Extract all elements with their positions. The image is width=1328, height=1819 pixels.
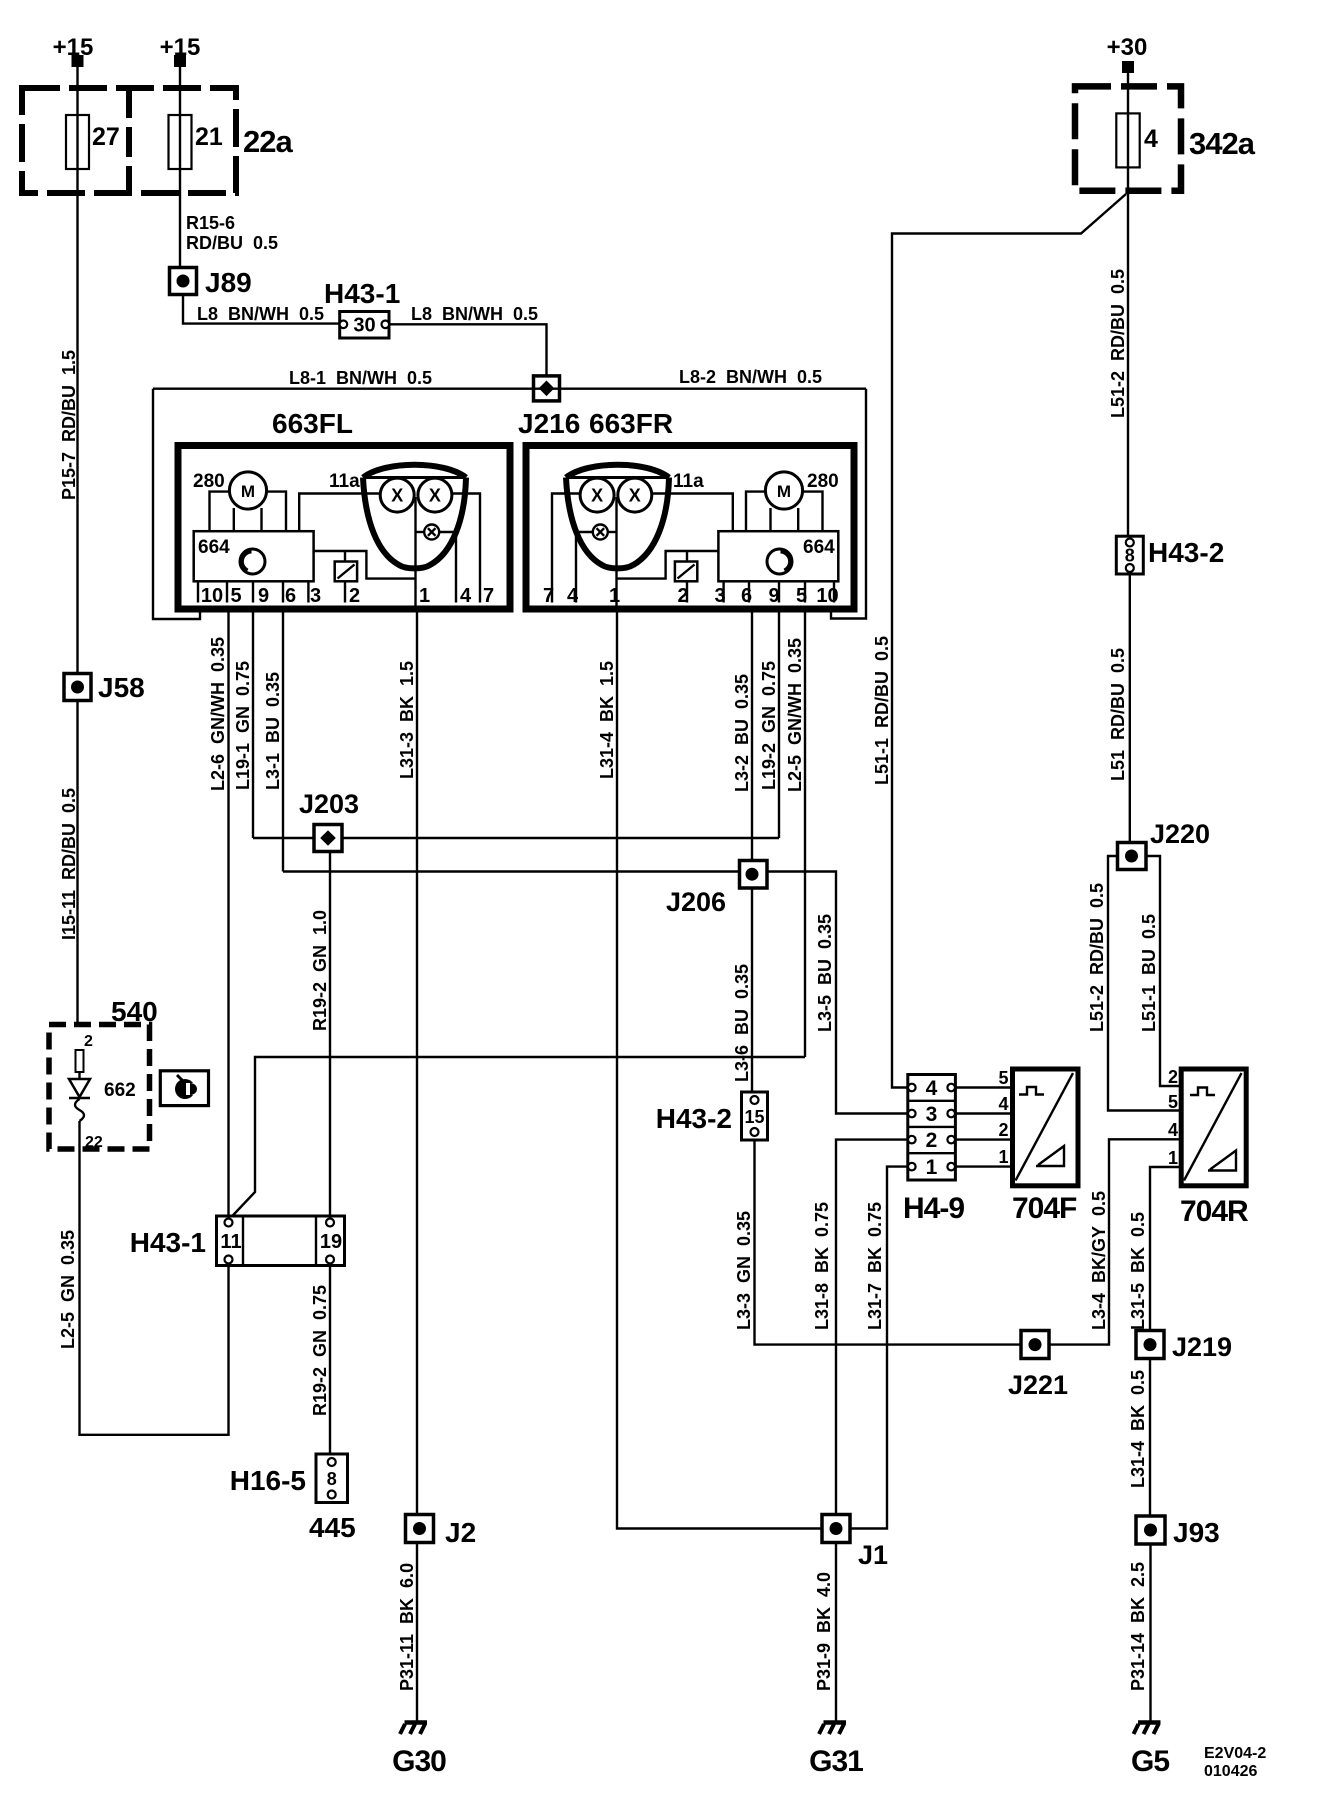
svg-text:X: X xyxy=(429,486,441,506)
svg-text:11a: 11a xyxy=(673,471,704,492)
leveling valve box (FL) xyxy=(344,551,346,562)
wire FL pin6 L3-1 down xyxy=(282,609,284,872)
wire 540 down and across to H43-1 pin 11 xyxy=(80,1121,229,1435)
junction J221 xyxy=(1021,1331,1049,1359)
svg-text:J58: J58 xyxy=(98,672,145,703)
svg-text:G30: G30 xyxy=(392,1745,446,1778)
svg-text:2: 2 xyxy=(677,585,688,607)
wire J89 to H43-1 pin 30 xyxy=(183,295,340,324)
wire FR pin9 L19-2 down xyxy=(778,609,780,838)
svg-text:P31-14 BK 2.5: P31-14 BK 2.5 xyxy=(1128,1562,1148,1691)
svg-text:J221: J221 xyxy=(1008,1370,1068,1400)
wire J220 right branch L51-1 to 704R pin 2 xyxy=(1146,856,1181,1086)
wire J93 down to G5 xyxy=(1149,1544,1151,1721)
wire J2 down to G30 xyxy=(416,1543,418,1722)
svg-text:I15-11 RD/BU 0.5: I15-11 RD/BU 0.5 xyxy=(59,788,79,940)
svg-text:L3-1 BU 0.35: L3-1 BU 0.35 xyxy=(263,672,283,790)
svg-text:5: 5 xyxy=(796,585,807,607)
switch icon box xyxy=(160,1071,208,1106)
wire from +15 to fuse 21 xyxy=(179,67,181,115)
svg-text:L3-3 GN 0.35: L3-3 GN 0.35 xyxy=(734,1211,754,1330)
pin ticks (FL) xyxy=(197,581,199,602)
svg-text:2: 2 xyxy=(998,1120,1008,1140)
svg-text:5: 5 xyxy=(1168,1092,1178,1112)
reflector tulip (FL) xyxy=(363,465,466,478)
bulb X left (FL) xyxy=(380,478,414,512)
svg-text:664: 664 xyxy=(803,537,835,558)
junction J89 xyxy=(170,268,197,295)
svg-text:J220: J220 xyxy=(1150,819,1210,849)
svg-text:4: 4 xyxy=(1168,1120,1178,1140)
svg-text:2: 2 xyxy=(926,1129,938,1152)
svg-text:280: 280 xyxy=(807,471,839,492)
wire J1 down to G31 xyxy=(835,1543,837,1722)
svg-text:H43-2: H43-2 xyxy=(656,1103,732,1134)
wire 704R pin 1 down through J219 to J93 xyxy=(1150,1167,1181,1516)
unit 540 dashed box xyxy=(49,1025,150,1150)
svg-text:10: 10 xyxy=(816,585,838,607)
svg-text:H16-5: H16-5 xyxy=(230,1465,306,1496)
svg-text:1: 1 xyxy=(419,585,430,607)
svg-text:8: 8 xyxy=(1125,546,1135,566)
motor wires (FR) xyxy=(746,492,764,532)
svg-text:4: 4 xyxy=(460,585,472,607)
svg-text:L51-2 RD/BU 0.5: L51-2 RD/BU 0.5 xyxy=(1108,269,1128,418)
ECU 704R xyxy=(1181,1069,1246,1186)
wire FR pin5 across to H43-1 pin 11 xyxy=(229,1057,806,1220)
svg-text:15: 15 xyxy=(744,1107,764,1127)
resistor in 540 xyxy=(76,1050,84,1072)
connector H43-1 pin 30 xyxy=(340,312,389,339)
svg-text:L3-6 BU 0.35: L3-6 BU 0.35 xyxy=(732,964,752,1082)
svg-text:280: 280 xyxy=(193,471,225,492)
bulb X right (FR) xyxy=(618,478,652,512)
junction J2 xyxy=(406,1515,434,1543)
internal wires (FL) xyxy=(299,494,381,532)
side bulb (FR) xyxy=(593,525,608,540)
headlamp unit 663FL xyxy=(178,446,510,610)
SECTION: right side xyxy=(812,34,1256,1529)
svg-text:2: 2 xyxy=(1168,1067,1178,1087)
svg-text:6: 6 xyxy=(741,585,752,607)
svg-text:6: 6 xyxy=(285,585,296,607)
svg-text:R15-6: R15-6 xyxy=(186,213,235,233)
wire H43-1 pin 19 down to H16-5 xyxy=(329,1264,331,1454)
wires H4-9 to 704F xyxy=(955,1086,1012,1088)
svg-text:4: 4 xyxy=(998,1094,1008,1114)
svg-text:H43-1: H43-1 xyxy=(130,1227,206,1258)
svg-text:L8 BN/WH 0.5: L8 BN/WH 0.5 xyxy=(411,304,538,324)
svg-text:R19-2 GN 0.75: R19-2 GN 0.75 xyxy=(310,1285,330,1416)
svg-text:22: 22 xyxy=(85,1134,103,1151)
reflector tulip (FR) xyxy=(566,465,669,478)
svg-text:M: M xyxy=(777,482,791,501)
wire H4-9 pin1 down to J1 xyxy=(850,1167,908,1529)
junction J1 xyxy=(822,1515,850,1543)
svg-text:4: 4 xyxy=(1144,125,1158,153)
svg-text:663FL: 663FL xyxy=(272,408,353,439)
svg-text:2: 2 xyxy=(349,585,360,607)
svg-text:J216: J216 xyxy=(518,408,580,439)
svg-text:704R: 704R xyxy=(1180,1195,1249,1228)
wire FL pin9 L19-1 down xyxy=(252,609,254,838)
wire from +15 to fuse 27 xyxy=(76,67,78,115)
svg-text:E2V04-2: E2V04-2 xyxy=(1204,1745,1266,1762)
svg-text:5: 5 xyxy=(998,1068,1008,1088)
svg-text:4: 4 xyxy=(567,585,579,607)
svg-text:30: 30 xyxy=(353,315,375,337)
wire fuse 27 down to J58 xyxy=(76,169,78,674)
wire joining pin6 wires (J206 row) xyxy=(283,872,908,1114)
bulb X right (FL) xyxy=(418,478,452,512)
wire H4-9 pin2 down to J1 xyxy=(836,1140,908,1515)
wire fuse 4 down to H43-2 pin 8 xyxy=(1127,167,1129,536)
svg-text:L31-4 BK 1.5: L31-4 BK 1.5 xyxy=(597,661,617,779)
fuse 4 xyxy=(1116,113,1139,167)
svg-text:J2: J2 xyxy=(445,1517,476,1548)
fuse 27 xyxy=(66,115,89,169)
wire J206 down to H43-2 pin 15 xyxy=(751,888,753,1092)
connector 664 (FR) xyxy=(718,531,838,581)
wire FR pin6 L3-2 down to J206 xyxy=(751,609,753,861)
svg-text:3: 3 xyxy=(310,585,321,607)
svg-text:1: 1 xyxy=(1168,1148,1178,1168)
svg-text:J219: J219 xyxy=(1172,1332,1232,1362)
svg-text:664: 664 xyxy=(198,537,230,558)
svg-text:+30: +30 xyxy=(1107,34,1148,61)
svg-text:662: 662 xyxy=(104,1080,136,1101)
svg-text:27: 27 xyxy=(92,123,120,151)
motor M (FL) xyxy=(229,472,266,509)
svg-text:L19-1 GN 0.75: L19-1 GN 0.75 xyxy=(233,661,253,790)
wire branch L51-1 from fuse to H4-9 pin 4 xyxy=(892,194,1126,1088)
svg-text:H43-1: H43-1 xyxy=(324,278,400,309)
svg-text:L2-6 GN/WH 0.35: L2-6 GN/WH 0.35 xyxy=(208,637,228,791)
svg-text:9: 9 xyxy=(768,585,779,607)
junction J93 xyxy=(1136,1516,1165,1544)
junction J58 xyxy=(64,674,91,701)
svg-text:J89: J89 xyxy=(205,267,252,298)
svg-text:2: 2 xyxy=(84,1033,93,1050)
svg-text:L51-1 BU 0.5: L51-1 BU 0.5 xyxy=(1139,914,1159,1032)
svg-text:540: 540 xyxy=(111,996,158,1027)
svg-text:L8 BN/WH 0.5: L8 BN/WH 0.5 xyxy=(197,304,324,324)
wire joining pin9 wires (J203 row) xyxy=(253,837,779,839)
svg-text:010426: 010426 xyxy=(1204,1763,1257,1780)
connector 664 (FL) xyxy=(194,531,314,581)
svg-text:X: X xyxy=(591,486,603,506)
svg-text:19: 19 xyxy=(320,1231,342,1253)
svg-text:11: 11 xyxy=(220,1231,241,1253)
SECTION: bottom xyxy=(49,996,1266,1780)
svg-text:704F: 704F xyxy=(1012,1192,1077,1225)
wire H43-1 pin 30 to J216 xyxy=(389,324,547,376)
svg-text:9: 9 xyxy=(258,585,269,607)
wire H43-2 pin15 down to J221 row xyxy=(755,1139,1182,1344)
wire H43-2 pin 8 down to J220 xyxy=(1129,574,1131,843)
connector H43-2 pin 8 xyxy=(1116,536,1143,574)
svg-text:L51-2 RD/BU 0.5: L51-2 RD/BU 0.5 xyxy=(1087,883,1107,1032)
svg-text:22a: 22a xyxy=(243,124,293,159)
svg-text:4: 4 xyxy=(926,1077,938,1100)
connector H16-5 pin 8 xyxy=(316,1454,348,1503)
wire J220 left branch L51-2 to 704R pin 5 xyxy=(1108,856,1181,1111)
svg-text:L3-2 BU 0.35: L3-2 BU 0.35 xyxy=(732,674,752,792)
ground G30 xyxy=(405,1720,428,1725)
ground G5 xyxy=(1138,1720,1161,1725)
svg-text:L31-3 BK 1.5: L31-3 BK 1.5 xyxy=(397,661,417,779)
connector H43-2 pin 15 xyxy=(742,1092,768,1140)
svg-text:445: 445 xyxy=(309,1512,356,1543)
fuse 21 xyxy=(169,115,192,169)
svg-text:7: 7 xyxy=(483,585,494,607)
svg-text:342a: 342a xyxy=(1189,126,1256,161)
headlamp unit 663FR xyxy=(526,446,854,610)
svg-text:L3-4 BK/GY 0.5: L3-4 BK/GY 0.5 xyxy=(1089,1191,1109,1330)
junction J220 xyxy=(1118,843,1147,870)
svg-text:5: 5 xyxy=(230,585,241,607)
svg-text:L31-4 BK 0.5: L31-4 BK 0.5 xyxy=(1128,1370,1148,1488)
svg-text:3: 3 xyxy=(714,585,725,607)
svg-text:R19-2 GN 1.0: R19-2 GN 1.0 xyxy=(310,910,330,1031)
bulb X left (FR) xyxy=(580,478,614,512)
ECU 704F xyxy=(1013,1069,1079,1186)
wire J203 down to H43-1 pin 19 xyxy=(329,852,331,1220)
SECTION: middle wiring xyxy=(208,609,1181,1529)
svg-text:1: 1 xyxy=(998,1147,1008,1167)
side bulb (FL) xyxy=(424,525,439,540)
svg-text:X: X xyxy=(391,486,403,506)
wire L8-2 drop to 663FR pin 10 xyxy=(831,389,866,619)
svg-text:L51 RD/BU 0.5: L51 RD/BU 0.5 xyxy=(1108,648,1128,781)
svg-text:7: 7 xyxy=(543,585,554,607)
junction J219 xyxy=(1136,1331,1164,1359)
svg-text:P31-11 BK 6.0: P31-11 BK 6.0 xyxy=(397,1563,417,1691)
svg-text:H4-9: H4-9 xyxy=(903,1192,964,1225)
fuse box 342a xyxy=(1075,86,1181,190)
svg-text:P31-9 BK 4.0: P31-9 BK 4.0 xyxy=(814,1572,834,1691)
svg-text:L51-1 RD/BU 0.5: L51-1 RD/BU 0.5 xyxy=(872,636,892,785)
wire FL pin5 L2-6 down to H43-1 pin 11 xyxy=(227,609,229,1219)
connector H43-1 pins 11/19 xyxy=(217,1216,345,1266)
internal wires (FR) xyxy=(651,494,733,532)
svg-text:L2-5 GN/WH 0.35: L2-5 GN/WH 0.35 xyxy=(785,638,805,792)
connector H4-9 xyxy=(908,1075,956,1181)
svg-text:M: M xyxy=(241,482,255,501)
wire L8-1 drop to 663FL pin 10 xyxy=(153,389,200,619)
svg-text:J1: J1 xyxy=(858,1540,888,1570)
svg-text:X: X xyxy=(629,486,641,506)
svg-text:J206: J206 xyxy=(666,887,726,917)
svg-text:1: 1 xyxy=(926,1156,938,1179)
wire FR pin5 L2-5 down xyxy=(804,609,806,1057)
fuse box 22a xyxy=(22,88,236,193)
motor wires (FL) xyxy=(210,492,229,532)
svg-text:L19-2 GN 0.75: L19-2 GN 0.75 xyxy=(759,661,779,790)
svg-text:L3-5 BU 0.35: L3-5 BU 0.35 xyxy=(815,914,835,1032)
svg-text:L2-5 GN 0.35: L2-5 GN 0.35 xyxy=(58,1230,78,1349)
wire FR pin1 L31-4 down to J1 xyxy=(617,609,822,1529)
svg-text:G5: G5 xyxy=(1131,1745,1169,1778)
wire FL pin1 L31-3 down to J2 xyxy=(416,609,418,1515)
svg-text:10: 10 xyxy=(201,585,223,607)
svg-text:1: 1 xyxy=(609,585,620,607)
junction J206 xyxy=(740,861,768,889)
leveling valve box (FR) xyxy=(686,551,688,562)
SECTION: headlamp units xyxy=(153,367,866,619)
svg-text:H43-2: H43-2 xyxy=(1148,537,1224,568)
svg-text:G31: G31 xyxy=(809,1745,863,1778)
svg-text:21: 21 xyxy=(195,123,223,151)
svg-text:P15-7 RD/BU 1.5: P15-7 RD/BU 1.5 xyxy=(59,350,79,500)
svg-text:8: 8 xyxy=(327,1469,337,1489)
ground G31 xyxy=(824,1720,847,1725)
motor M (FR) xyxy=(765,472,802,509)
svg-text:L8-1 BN/WH 0.5: L8-1 BN/WH 0.5 xyxy=(289,368,432,388)
svg-text:L8-2 BN/WH 0.5: L8-2 BN/WH 0.5 xyxy=(679,367,822,387)
svg-text:J93: J93 xyxy=(1173,1517,1220,1548)
svg-text:RD/BU 0.5: RD/BU 0.5 xyxy=(186,233,278,253)
wire J58 down to unit 540 xyxy=(76,701,78,1027)
junction J216 xyxy=(534,376,560,401)
wire +30 to fuse 4 xyxy=(1127,73,1129,113)
svg-text:3: 3 xyxy=(926,1103,938,1126)
svg-text:L31-5 BK 0.5: L31-5 BK 0.5 xyxy=(1128,1212,1148,1330)
pin ticks (FR) xyxy=(833,581,835,602)
LED 662 xyxy=(78,1072,80,1079)
svg-text:L31-8 BK 0.75: L31-8 BK 0.75 xyxy=(812,1202,832,1330)
SECTION: top-left power feed xyxy=(22,34,547,1026)
wire L8-1 / L8-2 main horizontal xyxy=(153,388,866,390)
svg-text:663FR: 663FR xyxy=(589,408,673,439)
wire fuse 21 down to J89 xyxy=(179,169,181,268)
svg-text:L31-7 BK 0.75: L31-7 BK 0.75 xyxy=(865,1202,885,1330)
junction J203 xyxy=(314,825,342,852)
svg-text:11a: 11a xyxy=(329,471,360,492)
svg-text:J203: J203 xyxy=(299,789,359,819)
